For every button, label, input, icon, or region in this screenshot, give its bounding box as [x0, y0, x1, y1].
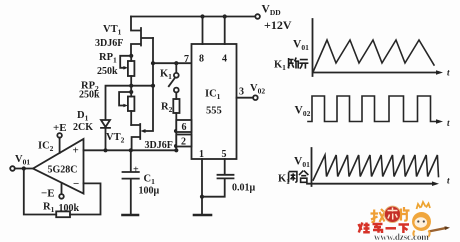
waveform 2 square wave	[308, 96, 437, 122]
svg-text:+12V: +12V	[264, 18, 292, 32]
svg-text:8: 8	[199, 54, 204, 65]
svg-text:+: +	[133, 165, 139, 176]
mark zhao char	[371, 209, 386, 222]
diode D1	[101, 120, 110, 127]
svg-text:5G28C: 5G28C	[48, 165, 78, 176]
wire VT1 drain down to pin7 rail	[152, 38, 154, 86]
node VDD terminal	[255, 14, 260, 19]
wire pin 8 supply	[202, 17, 204, 45]
switch K1	[175, 63, 177, 73]
svg-text:www.dzsc.com: www.dzsc.com	[374, 232, 429, 242]
waveform 1 triangle wave	[314, 40, 435, 71]
svg-text:3: 3	[239, 87, 244, 98]
svg-text:2CK: 2CK	[73, 122, 93, 133]
wire pin7 horizontal	[153, 62, 192, 64]
svg-text:t: t	[447, 68, 450, 78]
mark red circle xin	[384, 206, 400, 222]
svg-text:+E: +E	[53, 122, 67, 134]
node junction top rail pin4	[223, 14, 227, 18]
node junction pin6	[174, 129, 178, 133]
node V01 terminal	[10, 166, 15, 171]
svg-text:3DJ6F: 3DJ6F	[95, 38, 123, 49]
node junction K1 top	[174, 61, 178, 65]
hanzi bihe (K1 closed)	[289, 171, 309, 183]
svg-text:V02: V02	[295, 105, 311, 119]
resistor RP1 (pot)	[129, 54, 133, 58]
wire top supply rail	[131, 16, 255, 18]
wire pin 3 output	[237, 97, 254, 99]
svg-text:+: +	[73, 145, 79, 157]
wire branch to D1	[106, 86, 132, 120]
svg-text:R2: R2	[161, 102, 173, 115]
wire pin 1 to ground	[201, 159, 203, 214]
svg-text:D1: D1	[77, 110, 89, 123]
watermark logo dzsc	[359, 202, 451, 242]
waveform 1 axes	[313, 19, 439, 76]
node junction pin1 cap	[200, 195, 204, 199]
wire -E supply	[61, 183, 63, 194]
node +E terminal	[57, 133, 62, 138]
mark mascot	[412, 202, 450, 237]
capacitor C2 0.01u	[202, 159, 234, 197]
svg-text:3DJ6F: 3DJ6F	[145, 140, 173, 151]
pin 6 box	[176, 120, 191, 132]
IC1 555 box	[192, 44, 237, 159]
svg-text:4: 4	[222, 54, 227, 65]
svg-text:C1: C1	[144, 174, 156, 187]
resistor RP2 (pot)	[129, 90, 133, 94]
svg-text:IC2: IC2	[38, 141, 54, 154]
pin 2 box	[176, 135, 191, 147]
svg-text:V01: V01	[15, 154, 30, 167]
svg-text:6: 6	[182, 122, 187, 133]
svg-text:5: 5	[222, 149, 227, 160]
mark pian char	[401, 207, 410, 221]
transistor VT2 (JFET)	[131, 86, 153, 151]
ground under pin 1	[194, 214, 211, 217]
svg-text:VT1: VT1	[103, 24, 122, 37]
wire V01 to op-amp	[15, 168, 33, 170]
svg-text:t: t	[447, 118, 450, 128]
node junction top rail pin8	[200, 14, 204, 18]
wire op-amp + output	[84, 149, 177, 151]
waveform 3 axes	[307, 148, 434, 186]
svg-text:VT2: VT2	[106, 132, 125, 145]
hanzi duankai (K1 open)	[288, 58, 308, 69]
svg-text:−E: −E	[41, 188, 55, 200]
op-amp IC2 triangle	[33, 139, 84, 194]
mark weiku yixia red text	[359, 223, 410, 234]
node junction D1 output	[103, 148, 107, 152]
svg-text:1: 1	[199, 149, 204, 160]
svg-text:VDD: VDD	[262, 4, 282, 18]
svg-text:555: 555	[206, 106, 222, 117]
wire +E supply	[59, 138, 61, 153]
svg-text:100μ: 100μ	[139, 186, 160, 197]
svg-text:R1: R1	[43, 202, 55, 215]
wire feedback loop via R1	[24, 169, 101, 215]
ground under C1	[123, 214, 139, 217]
svg-text:V01: V01	[293, 39, 309, 53]
svg-text:100k: 100k	[59, 203, 80, 214]
svg-text:V02: V02	[250, 83, 265, 96]
svg-text:K1: K1	[160, 69, 172, 82]
svg-text:250k: 250k	[97, 66, 118, 77]
node V02 terminal	[253, 95, 258, 100]
transistor VT1 (JFET)	[131, 17, 153, 56]
svg-text:7: 7	[184, 54, 189, 65]
svg-text:RP1: RP1	[99, 52, 117, 65]
svg-text:250k: 250k	[79, 90, 100, 101]
svg-text:K1: K1	[274, 60, 286, 73]
node junction x153 y85.7	[151, 84, 155, 88]
svg-text:0.01μ: 0.01μ	[232, 183, 256, 194]
node junction RP mid	[129, 84, 133, 88]
node junction x153 y63	[151, 61, 155, 65]
waveform 3 sawtooth wave	[313, 155, 438, 180]
resistor R2	[173, 99, 179, 113]
node junction C1 top	[129, 148, 133, 152]
wire RP chain to gate rail	[131, 85, 153, 87]
svg-text:−: −	[73, 178, 79, 190]
svg-text:V01: V01	[294, 156, 310, 170]
wire pin 4 supply	[224, 17, 226, 45]
node junction pin2	[174, 144, 178, 148]
svg-text:2: 2	[181, 137, 186, 148]
node -E terminal	[59, 194, 64, 199]
resistor R1	[56, 211, 70, 217]
svg-text:t: t	[447, 176, 450, 186]
node junction pin2 wire	[174, 148, 178, 152]
node junction V01	[22, 166, 26, 170]
capacitor C1 electrolytic	[123, 150, 139, 214]
